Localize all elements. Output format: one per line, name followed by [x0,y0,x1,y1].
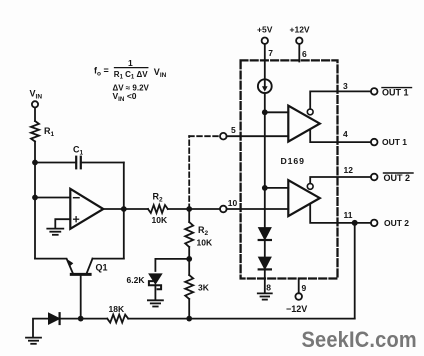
ground op-amp [47,229,63,235]
svg-text:SeekIC.com: SeekIC.com [302,327,417,352]
svg-text:+5V: +5V [257,25,273,35]
diode D3 internal [259,257,271,269]
svg-text:3K: 3K [198,283,210,293]
wire pin 7 [264,44,266,79]
svg-text:fo =: fo = [94,66,109,78]
ground bottom left [26,338,41,344]
formula delta V [113,84,150,93]
svg-text:C1: C1 [73,145,84,157]
comparator B [288,180,320,216]
svg-text:D169: D169 [281,156,305,166]
terminal VIN [30,89,43,108]
wire dashed link to pin 5 [189,136,220,209]
wire left rail [34,142,36,259]
svg-text:8: 8 [266,283,271,293]
inverter bubble B [307,184,313,190]
svg-text:Q1: Q1 [96,263,108,273]
svg-text:VIN <0: VIN <0 [113,91,137,103]
terminal OUT1 inverted [371,87,412,97]
comparator A [288,106,320,142]
svg-text:9: 9 [302,283,307,293]
wire pin 10 to comparator B [227,208,289,210]
wire op-amp output [103,208,148,210]
formula f0 [94,58,167,80]
node zener junction [186,256,192,262]
wire feedback rail [123,163,125,259]
diode D1 bottom left [49,313,60,324]
terminal pin 5 [220,125,236,140]
terminal +5V [257,25,273,59]
svg-text:R2: R2 [198,225,209,237]
ground zener [148,300,163,306]
node inverting input [32,195,38,201]
terminal pin 10 [220,198,238,212]
wire pin 4 [310,129,371,142]
svg-text:5: 5 [231,125,236,135]
svg-text:12: 12 [344,165,354,175]
svg-text:−12V: −12V [286,304,307,314]
wire collector branch [93,258,124,260]
current source [258,79,272,93]
transistor Q1 [68,259,108,319]
svg-text:OUT 1: OUT 1 [382,87,409,97]
terminal OUT2 inverted [371,173,413,183]
wire to op-amp inverting input [35,197,70,199]
wire pin 8 [265,269,272,292]
svg-text:OUT 2: OUT 2 [384,173,411,183]
wire pin 12 [310,165,371,184]
wire pin 6 [298,44,300,62]
svg-text:R1: R1 [44,126,55,138]
watermark SeekIC.com [302,327,417,352]
svg-text:6.2K: 6.2K [127,275,146,285]
wire pin 11 [310,204,371,223]
capacitor C1 [35,145,124,169]
svg-text:1: 1 [128,58,133,68]
node summing junction [32,160,38,166]
resistor R2 vertical [185,209,213,259]
wire bottom rail left end [33,319,49,337]
wire pin 5 to comparator A [227,135,289,137]
node Q1 base junction [78,316,84,322]
node bottom rail 3K [186,316,192,322]
svg-text:R2: R2 [153,192,164,204]
wire to comparator A input [265,111,289,113]
svg-text:6: 6 [302,49,307,59]
wire internal reference rail [264,93,266,227]
formula VIN less than zero [113,91,137,103]
terminal OUT1 [371,137,407,147]
diode D2 internal [259,228,271,240]
svg-text:10K: 10K [197,238,213,248]
svg-text:R1 C1 ΔV: R1 C1 ΔV [114,70,148,81]
svg-text:11: 11 [344,210,353,220]
wire pin 3 [310,81,371,109]
op-amp U1 [70,189,103,229]
node comparator B reference [262,185,268,191]
node pin 11 [352,220,358,226]
wire non-inverting input [55,219,70,227]
wire OUT2 feedback vertical [354,223,356,319]
IC D169 dashed box [241,60,338,278]
svg-text:7: 7 [268,48,273,58]
wire to comparator B input [265,187,289,189]
svg-text:4: 4 [343,129,348,139]
terminal OUT2 [371,218,409,228]
wire emitter branch [35,259,73,273]
resistor 3K [185,259,210,319]
terminal +12V [290,25,310,60]
svg-text:18K: 18K [109,304,125,314]
svg-text:+12V: +12V [290,25,310,35]
wire diode to base node [60,318,108,320]
svg-text:OUT 2: OUT 2 [384,218,409,228]
node R2 junction [186,206,192,212]
terminal pin 9 [286,280,307,314]
svg-text:OUT 1: OUT 1 [382,137,407,147]
svg-text:10: 10 [228,198,238,208]
svg-text:VIN: VIN [154,67,167,79]
svg-text:VIN: VIN [30,89,43,101]
zener diode 6.2 [127,274,162,300]
inverter bubble A [307,109,313,115]
wire bottom rail right [128,318,355,320]
resistor R1 [31,121,55,142]
resistor R2 horizontal [148,192,168,226]
node comparator A reference [262,109,268,115]
ground pin 8 [258,293,272,299]
resistor 18K [107,304,128,323]
wire between diodes [264,240,266,257]
wire to zener [155,259,189,271]
svg-text:3: 3 [343,81,348,91]
wire R2 to pin10 [168,208,220,210]
svg-text:10K: 10K [152,215,168,225]
wire VIN to R1 [34,108,36,122]
node op-amp output [121,206,127,212]
